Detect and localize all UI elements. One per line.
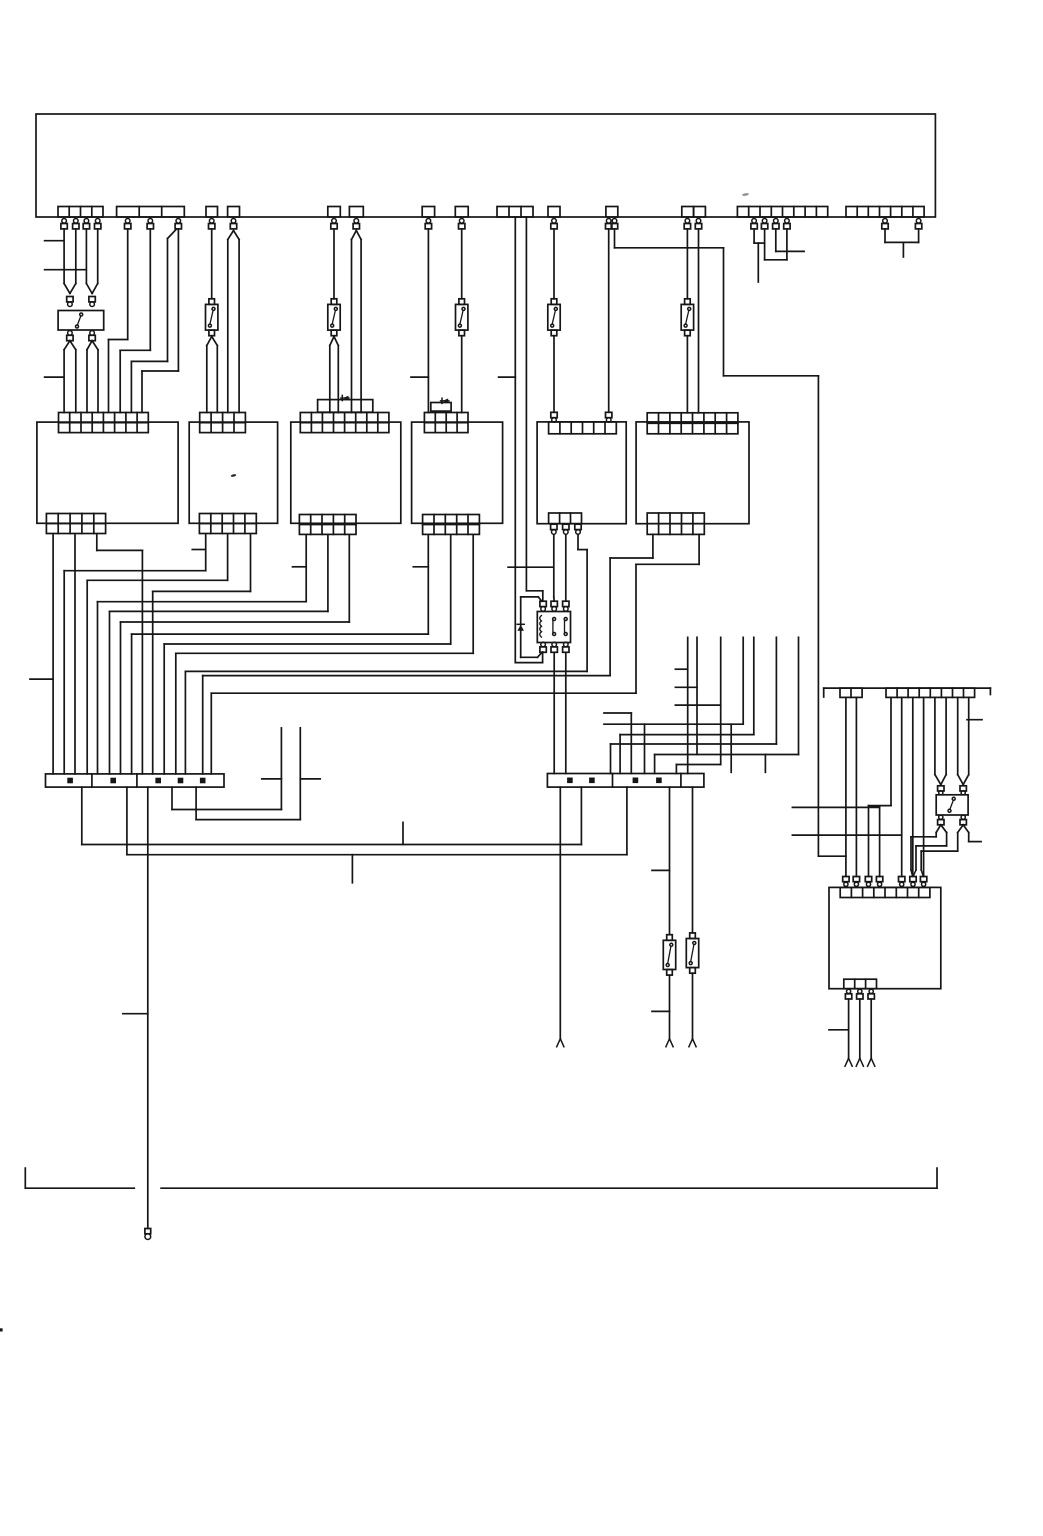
terminal T2 — [73, 219, 79, 229]
wire J1 exit 4 — [172, 728, 281, 810]
wire B4-1 to J1 — [132, 535, 429, 774]
B2 bottom pin strip — [199, 514, 256, 534]
wire U2b down — [859, 999, 861, 1058]
wire pair into K1 left — [64, 229, 76, 294]
wire pair T11 to B3 — [352, 231, 362, 413]
pin P8 — [206, 207, 218, 218]
wire B1-1 to J1 — [52, 535, 54, 774]
terminal T1 — [61, 219, 67, 229]
terminal V5 — [899, 877, 905, 887]
wire T6 to B1 — [120, 229, 150, 413]
fuse F7 — [663, 935, 675, 975]
wire T12 to B4 — [427, 229, 429, 413]
wire G2-4 down — [923, 697, 925, 876]
splice arrow 5 — [856, 1058, 863, 1066]
B3 bottom pin strip — [299, 515, 356, 535]
wire S1 drop — [757, 243, 759, 282]
fuse F6 — [681, 299, 693, 336]
diode D2 — [441, 398, 450, 403]
wire T10 to fuse F3 — [333, 229, 335, 299]
terminal T21 — [773, 219, 779, 229]
terminal T6 — [147, 219, 153, 229]
terminal T22 — [784, 219, 790, 229]
label stub v — [967, 719, 982, 721]
wire K2 pin5 to J2 — [553, 652, 555, 773]
label stub e — [192, 549, 205, 551]
terminal above K1 pin 2 — [89, 297, 95, 307]
wire branch to B1 — [142, 229, 178, 413]
wire T16a to B5 — [608, 229, 610, 412]
terminal V1 — [843, 877, 849, 887]
control unit box U2 — [829, 887, 941, 988]
wire B2-3 to J1 — [153, 535, 251, 774]
terminal V4 — [876, 877, 882, 887]
U2 bottom pin strip — [844, 979, 877, 989]
label stub p — [262, 778, 282, 780]
U2 top pin strip — [840, 887, 930, 897]
splice arrow 4 — [845, 1058, 852, 1066]
wire F5 to B5 — [553, 336, 555, 413]
label stub c — [45, 376, 63, 378]
label stub u — [652, 1010, 670, 1012]
label stub x — [829, 1029, 849, 1031]
wire G2-3 down — [912, 697, 914, 876]
connector rail line — [824, 688, 991, 697]
wire pair from K3 pin 4 — [958, 825, 969, 833]
wire B1-3 to J1 — [97, 535, 143, 774]
pin P13 — [455, 207, 468, 218]
wire T19 merge — [754, 229, 765, 243]
wire pair into K3 right — [958, 697, 969, 784]
connector box B3 — [291, 422, 401, 523]
wire pair F2 to B2 — [207, 337, 218, 413]
wire U2a down — [848, 999, 850, 1058]
wire pair into K3 left — [935, 697, 946, 784]
wire pair into K1 right — [86, 229, 97, 294]
B5 top pin strip — [549, 422, 617, 434]
pin strip S1 — [737, 207, 827, 218]
label stub j — [675, 686, 697, 688]
wire T18 to B6 — [698, 229, 700, 413]
B4 top pin strip — [424, 413, 468, 433]
terminal above K2 pin 3 — [563, 601, 569, 611]
terminal T4 — [95, 219, 101, 229]
wire J2 exit 5 upper — [692, 787, 694, 933]
terminal T24 — [915, 219, 921, 229]
terminal T23 — [882, 219, 888, 229]
B4 bottom pin strip — [423, 515, 480, 535]
wire B3-2 to J1 — [110, 535, 328, 774]
fan wire f6 — [611, 637, 777, 773]
fan wire f1 — [687, 637, 689, 773]
harness bracket right — [161, 1168, 937, 1188]
B1 bottom pin strip — [46, 514, 105, 534]
splice arrow 3 — [689, 1039, 696, 1047]
wire B3-3 to J1 — [121, 535, 350, 774]
label stub k — [675, 704, 720, 706]
terminal below K3 pin 3 — [938, 815, 944, 825]
wire K3b staircase — [913, 833, 946, 877]
long wire B5c to J1 — [185, 671, 587, 774]
wire B5b to K2 — [565, 534, 567, 601]
terminal above K3 pin 1 — [938, 786, 944, 795]
junction strip J2 — [547, 774, 704, 788]
wire J2 exit 4 upper — [669, 787, 671, 935]
terminal above K2 pin 1 — [540, 601, 546, 611]
pin group G1 — [840, 688, 862, 697]
wire J1 exit 1 — [82, 787, 582, 844]
connector box B4 — [412, 422, 503, 523]
wire B2-1 to J1 — [64, 535, 206, 774]
J2 joint mark 1 — [567, 778, 573, 784]
wire J2 exit 2 — [580, 787, 582, 844]
B6 top pin strip — [647, 413, 738, 434]
terminal below K1 pin 3 — [67, 331, 73, 341]
label stub w — [792, 806, 879, 808]
label stub q — [300, 778, 320, 780]
wire U2c down — [870, 999, 872, 1058]
terminal T13 — [459, 219, 465, 229]
terminal T16b — [611, 219, 617, 229]
splice arrow 6 — [868, 1058, 875, 1066]
connector box B1 — [37, 422, 178, 523]
wire pair from K3 pin 3 — [936, 825, 946, 833]
relay K1 — [58, 311, 104, 331]
terminal below K2 pin 5 — [551, 642, 557, 652]
terminal above B5 pin a — [551, 412, 557, 422]
J2 joint mark 2 — [589, 778, 595, 784]
wire pair F3 to B3 — [330, 337, 339, 413]
pin P9 — [228, 207, 240, 218]
splice arrow 2 — [666, 1039, 673, 1047]
terminal T16a — [606, 219, 612, 229]
label stub d2 — [411, 376, 428, 378]
J1 joint mark 1 — [67, 778, 73, 784]
terminal above K2 pin 2 — [551, 601, 557, 611]
long wire B6-1 to J1 — [203, 534, 653, 774]
pin P11 — [349, 207, 363, 218]
wire J2 exit 5 lower — [692, 973, 694, 1038]
J1 joint mark 3 — [155, 778, 161, 784]
pin strip G2 — [886, 688, 975, 697]
wire F6 to B6 — [686, 336, 688, 413]
wire K3d stub — [969, 833, 981, 842]
wire G2-1 jog — [869, 697, 892, 876]
terminal below B5 pin b — [563, 524, 569, 534]
relay K2 — [537, 612, 570, 643]
pin P10 — [328, 207, 341, 218]
wire G1-2 down — [855, 697, 857, 876]
pin P15 — [548, 207, 560, 218]
wire J1 exit 5 — [196, 728, 300, 820]
wire tick r — [402, 822, 404, 844]
fan wire f3 — [676, 637, 720, 773]
long wire B6-2 to J1 — [211, 534, 699, 774]
label stub d3 — [499, 376, 516, 378]
wire pair from K1 pin 3 — [64, 341, 76, 413]
J2 joint mark 4 — [656, 778, 662, 784]
label stub d — [508, 566, 553, 568]
fuse F2 — [206, 299, 218, 336]
connector box B6 — [636, 422, 749, 524]
wire P14a to K2 pin 4 — [515, 217, 542, 663]
diode D1 — [341, 395, 349, 400]
wire B5c jog — [578, 534, 587, 671]
terminal V3 — [865, 877, 871, 887]
wire K3c staircase — [921, 833, 958, 877]
pin P12 — [422, 207, 434, 218]
label stub g — [413, 566, 428, 568]
terminal T20 — [761, 219, 767, 229]
wire B3-1 to J1 — [98, 535, 307, 774]
label stub h — [30, 678, 53, 680]
wire B4-3 to J1 — [176, 535, 473, 774]
pin strip S2 — [846, 207, 924, 218]
B6 bottom pin strip — [647, 513, 704, 534]
splice arrow 1 — [557, 1039, 564, 1047]
wire T13 to fuse F4 — [461, 229, 463, 299]
wire J2 exit 1 — [559, 787, 561, 1039]
staircase wire with drop — [604, 713, 631, 774]
wire tick m — [730, 724, 732, 772]
terminal above B5 pin b — [606, 412, 612, 422]
J1 joint mark 4 — [178, 778, 184, 784]
wire T15 to fuse F5 — [553, 229, 555, 299]
wire B2-2 to J1 — [87, 535, 227, 774]
wire pair T9 to B2 — [228, 231, 239, 413]
branch stub long — [792, 834, 901, 836]
terminal T11 — [353, 219, 359, 229]
sub-connector above B3 — [318, 400, 373, 413]
terminal T5 — [125, 219, 131, 229]
terminal V6 — [910, 877, 916, 887]
label stub i — [675, 668, 687, 670]
wire J1 exit 2 — [127, 787, 627, 855]
B1 top pin strip — [59, 413, 149, 433]
terminal T12 — [425, 219, 431, 229]
terminal T9 — [230, 219, 236, 229]
J2 joint mark 3 — [633, 778, 639, 784]
wire tick n — [764, 755, 766, 773]
label stub f — [293, 566, 307, 568]
page edge mark — [0, 1328, 3, 1331]
relay K3 — [936, 795, 968, 815]
fan wire f5 — [620, 637, 754, 773]
pin P17 — [682, 207, 694, 218]
J1 joint mark 2 — [110, 778, 116, 784]
fan wire f2 — [696, 637, 698, 754]
connector pin group P1-P4 — [58, 207, 103, 218]
diode bracket wire — [521, 597, 542, 657]
scan artifact smudge — [742, 193, 749, 197]
ECU main box U1 — [36, 114, 935, 217]
wire J2 exit 4 lower — [669, 975, 671, 1039]
wire G1-1 down — [845, 697, 847, 876]
wire T21 stub — [776, 229, 804, 251]
scan artifact fleck — [231, 474, 237, 478]
B5 bottom pin strip — [549, 513, 582, 524]
terminal below U2 pin c — [868, 989, 874, 999]
terminal below K2 pin 4 — [540, 642, 546, 652]
connector box B2 — [189, 422, 277, 523]
pin P18 — [694, 207, 706, 218]
terminal below K2 pin 6 — [563, 642, 569, 652]
wire pair from K1 pin 4 — [87, 341, 98, 413]
wire T23-T24 merge — [885, 229, 919, 257]
pin P16 — [606, 207, 618, 218]
connector wide pins P5-P7 — [117, 207, 185, 218]
wire B5a to K2 — [553, 534, 555, 601]
terminal below B5 pin c — [575, 524, 581, 534]
wire J2 exit 3 — [626, 787, 628, 855]
wire tick s — [351, 855, 353, 883]
terminal T18 — [695, 219, 701, 229]
wire T5 to B1 — [109, 229, 128, 413]
wire B4-2 to J1 — [164, 535, 451, 774]
wire T20 merge — [765, 229, 787, 260]
fuse F5 — [548, 299, 560, 336]
terminal T19 — [751, 219, 757, 229]
label stub b — [45, 269, 86, 271]
wire T7 to B1 — [131, 229, 176, 413]
B3 top pin strip — [300, 413, 389, 433]
terminal T7 — [175, 219, 181, 229]
terminal V2 — [853, 877, 859, 887]
terminal at ground wire end — [145, 1229, 151, 1240]
junction strip J1 — [46, 774, 225, 787]
long wire T16b to right section — [615, 229, 846, 856]
terminal V7 — [920, 877, 926, 887]
B2 top pin strip — [200, 413, 246, 433]
wire K2 pin6 to J2 — [565, 652, 567, 773]
label stub o — [123, 1013, 148, 1015]
sub-connector above B4 — [431, 403, 451, 412]
connector box B5 — [537, 422, 626, 524]
terminal above K3 pin 2 — [960, 786, 966, 795]
wire F4 to B4 — [461, 336, 463, 413]
harness bracket left — [25, 1168, 134, 1188]
wire G2-2 with branch — [901, 697, 903, 876]
terminal T3 — [83, 219, 89, 229]
terminal above K1 pin 1 — [67, 297, 73, 307]
fan wire f4 — [604, 637, 743, 773]
wire P14b to K2 pin 1 — [526, 217, 542, 601]
wire K3a staircase — [911, 833, 936, 877]
terminal T17 — [684, 219, 690, 229]
J1 joint mark 5 — [200, 778, 206, 784]
label stub a — [45, 240, 63, 242]
terminal below U2 pin a — [845, 989, 851, 999]
label stub t — [652, 869, 670, 871]
wire B1-2 to J1 — [74, 535, 76, 774]
terminal T10 — [331, 219, 337, 229]
terminal below K1 pin 4 — [89, 331, 95, 341]
wire T17 to fuse F6 — [686, 229, 688, 299]
diode D3 — [517, 624, 524, 631]
terminal below K3 pin 4 — [960, 815, 966, 825]
wire T8 to fuse F2 — [211, 229, 213, 299]
fuse F8 — [686, 933, 698, 973]
terminal below U2 pin b — [857, 989, 863, 999]
fuse F4 — [456, 299, 468, 336]
fuse F3 — [328, 299, 340, 336]
terminal T8 — [209, 219, 215, 229]
pin group P14 — [497, 207, 533, 218]
wire J1 exit 3 long ground wire — [147, 787, 149, 1228]
terminal below B5 pin a — [551, 524, 557, 534]
terminal T15 — [551, 219, 557, 229]
wire to terminal V4 — [879, 807, 881, 876]
fan wire f7 — [655, 637, 799, 773]
